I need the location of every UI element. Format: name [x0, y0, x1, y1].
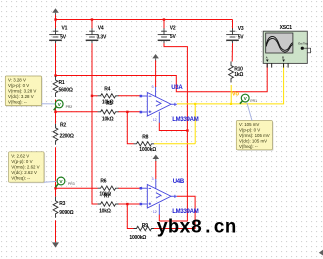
svg-text:PR2: PR2	[66, 105, 73, 109]
svg-text:2200Ω: 2200Ω	[60, 133, 74, 139]
svg-text:V(p-p): 0 V: V(p-p): 0 V	[239, 128, 260, 133]
node junction R2/R3 tap with R6 row	[54, 187, 56, 189]
node junction yellow output - R10	[230, 103, 232, 105]
power VCC arrow for U4B	[153, 155, 160, 162]
resistor R6 10k	[98, 186, 119, 190]
resistor R4 10k	[98, 94, 119, 98]
U3A minus sign	[149, 95, 152, 97]
measurement tooltip 1 (PR2 values)	[5, 76, 42, 107]
svg-text:R2: R2	[60, 122, 66, 128]
svg-text:V(freq): --: V(freq): --	[11, 175, 30, 180]
battery V1	[49, 28, 62, 43]
resistor R7 10k	[98, 202, 119, 206]
U3A triangle body	[147, 93, 171, 117]
svg-text:R4: R4	[104, 87, 110, 93]
wire: vcc to U3A top pin	[155, 60, 157, 87]
resistor R8 1000k	[134, 142, 155, 146]
wire: R9 right up to U4B output	[154, 196, 195, 228]
wire: R5 row from R1/R2 tap to U3A minus input	[56, 111, 98, 113]
wire: R4 row from V4 rail to U3A plus-side input	[92, 95, 98, 97]
svg-text:12: 12	[153, 210, 157, 214]
svg-text:R7: R7	[104, 194, 110, 200]
svg-text:3: 3	[152, 85, 154, 89]
svg-text:A: A	[266, 56, 268, 60]
resistor R10 1k pull-up	[229, 62, 234, 83]
U3A output pin tick	[174, 103, 176, 106]
wire: V4 rail down left side feeding R4 and turning into R7 row	[92, 43, 98, 204]
wire: bus to V4	[91, 20, 93, 29]
XSC1 body	[263, 31, 307, 63]
svg-text:V1: V1	[62, 26, 68, 32]
wire: vcc arrow to bus	[55, 15, 57, 20]
wire: bus corner to V3	[232, 20, 234, 29]
svg-text:V(dc): 3.28 V: V(dc): 3.28 V	[8, 94, 34, 99]
probe PR2	[54, 100, 73, 110]
wire: R1 bottom to tap node	[55, 100, 57, 124]
U3A pin connection dot minus	[140, 95, 143, 98]
wire: V1 to R1 node	[55, 43, 57, 76]
XSC1 ext trig terminal	[301, 47, 304, 50]
wire: bus to V2	[163, 20, 165, 29]
U3A vcc pin	[155, 87, 157, 97]
svg-text:9090Ω: 9090Ω	[59, 210, 73, 216]
wire: R2 bottom to tap2	[55, 147, 57, 197]
U4B input pin plus (bottom)	[142, 203, 147, 205]
U3A comparator mark	[156, 101, 161, 106]
svg-text:R9: R9	[142, 223, 148, 229]
U4B pin connection dot plus	[140, 203, 143, 206]
mouse cursor artifact bottom-right	[319, 250, 323, 256]
svg-text:3: 3	[152, 177, 154, 181]
svg-text:Vo: Vo	[232, 92, 240, 98]
U3A gnd pin	[158, 112, 160, 123]
wire: R10 bottom yellow down to output net	[230, 85, 232, 104]
measurement tooltip 3 (PR1 values)	[236, 121, 273, 151]
svg-text:1000kΩ: 1000kΩ	[129, 235, 146, 241]
tooltip 3 pointer line	[247, 103, 252, 121]
svg-text:V(dc): 2.62 V: V(dc): 2.62 V	[11, 170, 37, 175]
svg-text:5V: 5V	[238, 34, 245, 40]
U4B output pin tick	[174, 195, 176, 198]
wire: U3A gnd pin to V2- rail	[159, 123, 187, 131]
op-amp U4B LM339AM	[140, 177, 177, 215]
svg-text:5600Ω: 5600Ω	[59, 88, 73, 94]
svg-text:1000kΩ: 1000kΩ	[139, 147, 156, 153]
svg-text:V: 3.28 V: V: 3.28 V	[8, 78, 26, 83]
svg-text:V(dc): 105 mV: V(dc): 105 mV	[239, 139, 267, 144]
XSC1 waveform trace 1	[266, 36, 292, 50]
U4B comparator mark	[156, 193, 161, 198]
svg-text:1kΩ: 1kΩ	[234, 72, 243, 78]
node junction R1/R2 tap with R5 row	[54, 111, 56, 113]
svg-text:V4: V4	[98, 26, 104, 32]
svg-text:U3A: U3A	[171, 85, 183, 91]
U4B plus sign	[149, 203, 152, 206]
svg-text:ybx8.cn: ybx8.cn	[157, 217, 237, 239]
node junction bus-V4	[91, 18, 93, 20]
svg-text:R6: R6	[100, 179, 106, 185]
power VCC arrow top-left	[52, 8, 59, 15]
svg-text:U4B: U4B	[173, 179, 185, 185]
U4B gnd pin	[158, 204, 160, 215]
wire: drop to R9	[127, 204, 133, 229]
svg-text:5V: 5V	[170, 34, 177, 40]
svg-text:PR1: PR1	[250, 99, 257, 103]
wire: V1-/R1 node to scope A (passes right, down at x=176.3, right at y=91.8, up to scope)	[56, 64, 268, 92]
XSC1 waveform trace 2	[266, 38, 292, 52]
tooltip 1 pointer line	[42, 103, 55, 105]
node junction bus-V2	[163, 18, 165, 20]
U3A plus sign	[149, 111, 152, 114]
svg-text:V: 105 mV: V: 105 mV	[239, 122, 259, 127]
svg-text:V(freq): --: V(freq): --	[8, 100, 27, 105]
oscilloscope XSC1	[263, 31, 310, 67]
U4B output pin	[171, 195, 177, 197]
U3A output pin	[171, 103, 177, 105]
svg-text:10kΩ: 10kΩ	[99, 208, 111, 214]
wire: top 5V bus y=19.5	[56, 19, 233, 21]
svg-text:Ext Trig: Ext Trig	[298, 41, 308, 45]
node junction V4 rail - R4	[91, 95, 93, 97]
node junction R7 row - R9 drop	[126, 203, 128, 205]
node junction R5 row - R8 drop	[126, 111, 128, 113]
wire: bus to V1	[55, 20, 57, 29]
U4B triangle body	[147, 185, 171, 209]
svg-text:R3: R3	[59, 201, 65, 207]
resistor R9 1000k	[134, 226, 155, 230]
battery V2	[158, 28, 171, 43]
node junction yellow output - R8 drop	[194, 103, 196, 105]
U4B minus sign	[149, 187, 152, 189]
svg-text:V(freq): --: V(freq): --	[239, 144, 258, 149]
node junction bus-V1	[54, 18, 56, 20]
U4B input pin minus (top)	[142, 187, 147, 189]
U3A input pin minus (top)	[142, 95, 147, 97]
svg-text:V(rms): 105 mV: V(rms): 105 mV	[239, 133, 270, 138]
svg-text:LM339AM: LM339AM	[172, 209, 199, 215]
svg-text:5V: 5V	[60, 35, 67, 41]
measurement tooltip 2 (PR3 values)	[9, 152, 46, 183]
ground symbol bottom-left	[52, 242, 59, 247]
wire: U4B gnd pin red part	[158, 215, 160, 222]
U4B pin connection dot minus	[140, 187, 143, 190]
resistor R2 2200	[53, 124, 58, 145]
wire: V3 to R10	[231, 43, 233, 61]
resistor R5 10k	[98, 110, 119, 114]
battery V3	[226, 28, 239, 43]
U3A pin connection dot plus	[140, 111, 143, 114]
svg-text:PR3: PR3	[68, 182, 75, 186]
svg-text:B: B	[282, 56, 284, 60]
svg-text:R8: R8	[142, 134, 148, 140]
svg-text:12: 12	[153, 118, 157, 122]
node junction V2 rail - U3A gnd	[186, 129, 188, 131]
resistor R1 5600	[53, 76, 58, 97]
svg-text:V: 2.62 V: V: 2.62 V	[11, 153, 29, 158]
wire: R7 row from V4 rail to U4B minus input	[118, 203, 140, 205]
tooltip 2 pointer line	[44, 180, 57, 183]
wire: drop to R8	[127, 112, 133, 144]
U3A input pin plus (bottom)	[142, 111, 147, 113]
svg-text:V3: V3	[238, 26, 244, 32]
wire: R6 row from R2/R3 tap to U4B plus-side input	[56, 187, 98, 189]
wire: R8 right yellow to output net	[154, 143, 195, 145]
svg-text:V(p-p): 0 V: V(p-p): 0 V	[11, 159, 32, 164]
svg-text:LM339AM: LM339AM	[172, 117, 199, 123]
U4B vcc pin	[155, 179, 157, 189]
XSC1 screen	[266, 33, 293, 53]
node junction V1-/R1 top with wire to comparator output rail	[54, 74, 56, 76]
probe PR3	[56, 177, 75, 187]
svg-text:V(rms): 2.62 V: V(rms): 2.62 V	[11, 164, 39, 169]
wire: V2 minus down right of opamps to U3A/U4B ground pins	[159, 43, 187, 221]
svg-text:R1: R1	[59, 80, 65, 86]
wire: R3 bottom to ground	[55, 220, 57, 242]
op-amp U3A LM339AM	[140, 85, 177, 123]
svg-text:R5: R5	[106, 101, 112, 107]
probe PR1	[240, 94, 257, 104]
wire: yellow output drop to R8	[194, 104, 196, 144]
svg-text:V(rms): 3.28 V: V(rms): 3.28 V	[8, 89, 36, 94]
wire: vcc to U4B top pin	[155, 161, 157, 179]
svg-text:V(p-p): 0 V: V(p-p): 0 V	[8, 83, 29, 88]
power VCC arrow for U3A	[152, 54, 159, 61]
wire: U3A output yellow to scope B	[177, 64, 284, 104]
resistor R3 9090	[53, 197, 58, 218]
svg-text:10kΩ: 10kΩ	[102, 117, 114, 123]
svg-text:3.3V: 3.3V	[97, 35, 107, 41]
svg-text:V2: V2	[170, 26, 176, 32]
svg-text:XSC1: XSC1	[280, 25, 293, 31]
battery V4 3.3V	[86, 28, 99, 43]
